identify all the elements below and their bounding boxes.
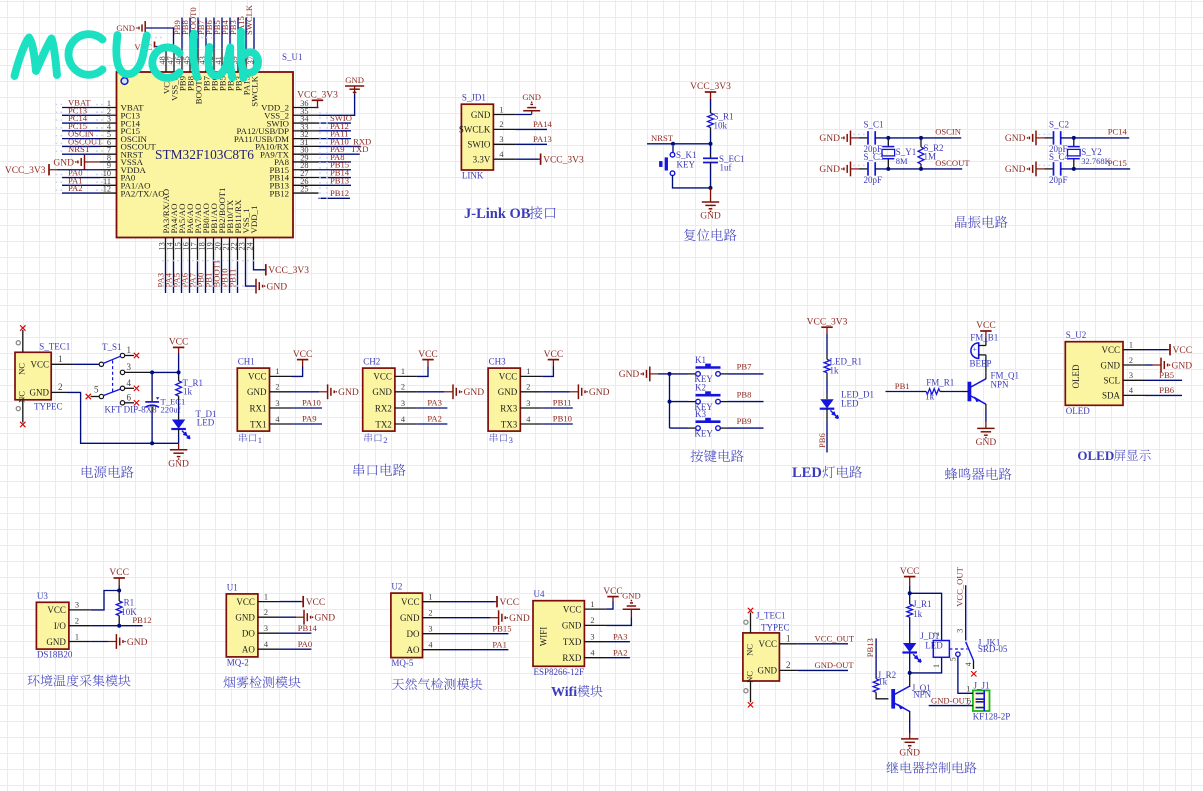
node GND-OUT relay: [929, 696, 973, 708]
svg-text:ESP8266-12F: ESP8266-12F: [534, 667, 585, 677]
chip top pin stubs and numbers: [158, 49, 255, 72]
title gas module: [392, 678, 482, 690]
svg-text:AO: AO: [242, 645, 255, 655]
svg-text:1: 1: [590, 600, 594, 609]
svg-text:VCC: VCC: [401, 597, 420, 607]
svg-text:GND: GND: [235, 613, 255, 623]
svg-text:220uf: 220uf: [161, 405, 181, 415]
svg-text:GND: GND: [471, 110, 491, 120]
svg-text:PA3: PA3: [427, 398, 442, 408]
no-connect bottom of S_TEC1: [16, 400, 25, 427]
svg-text:FM_R1: FM_R1: [926, 378, 954, 388]
svg-text:PA2: PA2: [613, 647, 628, 657]
svg-text:2: 2: [58, 382, 63, 392]
node PA10: [292, 398, 323, 408]
svg-text:TYPEC: TYPEC: [34, 401, 63, 411]
wire: [826, 373, 828, 379]
svg-text:S_C2: S_C2: [1049, 120, 1069, 130]
svg-text:KF128-2P: KF128-2P: [973, 712, 1011, 722]
ground relay: [899, 733, 920, 758]
node PB1: [886, 381, 921, 391]
svg-text:32.768K: 32.768K: [1081, 156, 1111, 166]
svg-text:S_K1: S_K1: [676, 150, 697, 160]
node VCC_OUT: [798, 633, 855, 643]
svg-text:3: 3: [590, 633, 594, 642]
sensor U2 MQ-5: [391, 582, 445, 669]
svg-text:LED: LED: [792, 465, 822, 481]
svg-text:+: +: [973, 345, 977, 354]
svg-text:PB12: PB12: [132, 615, 151, 625]
svg-text:VCC: VCC: [236, 597, 255, 607]
svg-text:PB14: PB14: [298, 623, 318, 633]
svg-text:2: 2: [428, 609, 432, 618]
svg-text:5: 5: [949, 657, 958, 661]
svg-text:PB8: PB8: [737, 389, 752, 399]
svg-text:VCC_3V3: VCC_3V3: [543, 156, 584, 166]
node PA2: [417, 414, 448, 424]
svg-text:PA9: PA9: [302, 414, 317, 424]
key K3: [670, 409, 721, 438]
ground at CH3: [542, 384, 609, 399]
ground at CH2: [417, 384, 484, 399]
svg-text:1M: 1M: [924, 152, 937, 162]
node PB5: [1145, 370, 1182, 380]
svg-text:GND: GND: [127, 638, 148, 648]
wire: [671, 142, 713, 146]
switch T_S1 KFT DIP-8X8: [73, 342, 157, 415]
label serial2: [364, 433, 387, 445]
power VCC_3V3 LED: [807, 317, 848, 334]
power VCC MQ-5: [445, 596, 520, 608]
ground key circuit: [619, 367, 670, 382]
svg-text:VCC_3V3: VCC_3V3: [268, 266, 309, 276]
svg-text:RXD: RXD: [562, 653, 582, 663]
power VCC_3V3 at VDDA pin 9: [5, 164, 100, 176]
ground at VSS_3 pin 47: [116, 21, 173, 49]
power VCC buzzer: [976, 321, 996, 345]
title relay control circuit: [886, 762, 976, 774]
svg-text:NC: NC: [744, 671, 754, 683]
wire switch to J_J1: [958, 656, 973, 693]
svg-text:I/O: I/O: [54, 621, 66, 631]
svg-text:PB1: PB1: [895, 381, 910, 391]
svg-text:MQ-5: MQ-5: [391, 658, 413, 668]
svg-text:GND: GND: [1101, 360, 1121, 370]
display S_U2 OLED: [1065, 330, 1145, 416]
svg-text:3: 3: [127, 362, 132, 372]
svg-text:TXD: TXD: [563, 637, 582, 647]
svg-text:PB10: PB10: [553, 414, 572, 424]
svg-text:GND: GND: [30, 388, 50, 398]
svg-text:VCC: VCC: [1173, 346, 1193, 356]
svg-text:PB15: PB15: [492, 624, 511, 634]
ground DS18B20: [91, 634, 148, 649]
svg-text:TX3: TX3: [501, 419, 518, 429]
svg-text:PB7: PB7: [737, 362, 753, 372]
svg-text:KEY: KEY: [677, 160, 696, 170]
svg-text:OLED: OLED: [1066, 406, 1090, 416]
svg-text:VCC_3V3: VCC_3V3: [807, 317, 848, 327]
power VCC_3V3 at VDD_1 pin 24: [254, 262, 310, 277]
title temperature module: [28, 674, 131, 686]
svg-text:10k: 10k: [714, 121, 728, 131]
node PB15: [445, 624, 512, 634]
svg-text:GND: GND: [1172, 361, 1193, 371]
node PB13: [319, 175, 352, 185]
svg-text:VCC: VCC: [976, 321, 996, 331]
resistor LED_R1 1k: [824, 356, 862, 375]
power VCC at CH1: [292, 350, 313, 377]
power VCC at CH2: [417, 350, 438, 377]
svg-text:GND: GND: [899, 748, 920, 758]
svg-text:VCC: VCC: [499, 372, 518, 382]
svg-text:1: 1: [499, 105, 503, 114]
node SWIO: [319, 113, 352, 123]
node NRST: [62, 144, 100, 154]
svg-text:PB5: PB5: [1159, 370, 1174, 380]
svg-text:2: 2: [1129, 356, 1133, 365]
wire: [673, 176, 713, 190]
connector CH2 serial: [363, 357, 417, 432]
node PB9: [720, 416, 763, 428]
node PC15: [62, 121, 100, 131]
ground at S_JD1 pin 1: [515, 92, 541, 115]
power VCC relay: [900, 567, 920, 594]
power VCC at OLED: [1145, 344, 1192, 356]
svg-text:GND: GND: [976, 438, 997, 448]
title LED circuit: [792, 465, 862, 481]
svg-text:PB13: PB13: [330, 175, 349, 185]
node NRST: [647, 133, 674, 144]
sensor U3 DS18B20: [36, 591, 91, 660]
svg-text:1: 1: [966, 684, 970, 693]
svg-text:GND: GND: [498, 387, 518, 397]
node PC13: [62, 105, 100, 115]
node SWCLK: [244, 4, 254, 49]
svg-text:GND: GND: [758, 666, 778, 676]
transistor J_Q1 NPN: [891, 683, 931, 712]
node PA7: [188, 262, 198, 294]
logo MCUclub: [15, 32, 259, 79]
label serial3: [490, 433, 513, 445]
svg-text:1: 1: [932, 664, 941, 668]
node PC14: [62, 113, 100, 123]
svg-text:LINK: LINK: [462, 171, 484, 181]
svg-text:PB13: PB13: [865, 638, 875, 657]
svg-text:KEY: KEY: [694, 428, 713, 438]
crystal circuit S_Y2 32.768K: [1005, 120, 1130, 185]
svg-text:NRST: NRST: [651, 133, 674, 143]
node PB9: [172, 18, 182, 49]
svg-text:NC: NC: [17, 391, 27, 403]
svg-text:20pF: 20pF: [1049, 175, 1068, 185]
node PA9 TXD: [319, 144, 369, 154]
svg-text:GND: GND: [372, 387, 392, 397]
svg-text:S_JD1: S_JD1: [462, 93, 486, 103]
wire: [985, 355, 987, 360]
node GND-OUT: [798, 660, 855, 670]
title reset circuit: [684, 229, 737, 241]
power VCC_3V3 at S_JD1 pin 4: [515, 154, 584, 166]
svg-text:S_C1: S_C1: [864, 120, 884, 130]
svg-text:OSCOUT: OSCOUT: [935, 158, 970, 168]
node OSCIN: [62, 129, 100, 139]
svg-text:GND: GND: [619, 370, 640, 380]
svg-text:S_U1: S_U1: [282, 52, 303, 62]
power VCC at pin 48: [134, 42, 166, 53]
svg-text:PA2: PA2: [68, 183, 83, 193]
svg-text:GND: GND: [522, 92, 541, 102]
transistor FM_Q1 NPN: [968, 371, 1020, 405]
svg-text:TYPEC: TYPEC: [761, 622, 790, 632]
power VCC DS18B20: [109, 568, 129, 601]
svg-text:20pF: 20pF: [864, 175, 883, 185]
node PB15: [319, 160, 352, 170]
svg-text:TX2: TX2: [375, 419, 392, 429]
svg-text:GND: GND: [509, 614, 530, 624]
power VCC at CH3: [542, 350, 563, 377]
ground reset: [700, 188, 721, 222]
wire power bus: [67, 370, 181, 445]
svg-text:K3: K3: [695, 409, 706, 419]
svg-text:RX1: RX1: [249, 403, 266, 413]
svg-text:GND: GND: [819, 134, 840, 144]
svg-text:GND: GND: [622, 591, 641, 601]
no-connect bottom of J_TEC1: [744, 681, 753, 708]
svg-text:K2: K2: [695, 383, 706, 393]
svg-text:1k: 1k: [830, 366, 840, 376]
marks: [150, 38, 327, 287]
svg-text:PB12: PB12: [330, 188, 349, 198]
resistor S_R1 10k: [708, 112, 734, 131]
svg-text:8M: 8M: [896, 156, 908, 166]
connector J_TEC1 TYPEC: [743, 611, 798, 683]
title power circuit: [82, 466, 134, 478]
chip S_U1 STM32F103C8T6 body: [117, 52, 303, 238]
node PB6: [1145, 385, 1182, 395]
svg-text:2: 2: [264, 608, 268, 617]
chip bottom pin stubs and numbers: [158, 238, 255, 262]
svg-text:3.3V: 3.3V: [473, 155, 491, 165]
svg-text:1: 1: [1129, 341, 1133, 350]
svg-text:GND: GND: [589, 388, 610, 398]
svg-text:RX3: RX3: [500, 403, 518, 413]
svg-text:4: 4: [127, 378, 132, 388]
svg-text:BEEP: BEEP: [970, 359, 992, 369]
svg-text:VDD_1: VDD_1: [249, 206, 259, 234]
module U4 ESP8266-12F: [533, 589, 606, 677]
node PA1 MQ-5: [445, 640, 509, 650]
svg-text:J_J1: J_J1: [974, 680, 990, 690]
svg-text:NC: NC: [744, 644, 754, 656]
connector J_J1 KF128-2P: [973, 680, 1011, 721]
svg-text:2: 2: [499, 120, 503, 129]
wire: [985, 373, 987, 379]
relay switch lever J_JK1 SRD-05: [949, 638, 1008, 677]
svg-text:OLED: OLED: [1077, 448, 1114, 463]
svg-text:6: 6: [127, 392, 132, 402]
key K1: [670, 355, 721, 384]
svg-text:OSCIN: OSCIN: [935, 127, 962, 137]
svg-text:25: 25: [300, 185, 308, 194]
svg-text:3: 3: [275, 399, 279, 408]
node PB14: [280, 623, 318, 633]
svg-text:VCC: VCC: [169, 338, 189, 348]
svg-text:PA3: PA3: [613, 631, 628, 641]
node PA3 wifi: [606, 631, 630, 641]
svg-text:SWIO: SWIO: [467, 140, 490, 150]
resistor J_R1 1k: [907, 593, 932, 643]
node PB4: [220, 18, 230, 49]
title wifi module: [551, 685, 603, 700]
ground buzzer: [976, 422, 997, 448]
node PB6 LED: [817, 409, 827, 453]
svg-text:VCC_OUT: VCC_OUT: [815, 633, 855, 643]
node PB10: [220, 262, 230, 294]
svg-text:VCC: VCC: [373, 372, 392, 382]
svg-text:LED: LED: [197, 418, 215, 428]
capacitor S_EC1 1uf: [703, 144, 745, 188]
svg-text:VCC: VCC: [1101, 345, 1120, 355]
ground wifi: [606, 591, 640, 626]
relay coil J_JK1: [908, 632, 950, 675]
title smoke module: [223, 676, 300, 688]
svg-text:PA2: PA2: [427, 414, 442, 424]
svg-text:1: 1: [127, 345, 132, 355]
connector S_JD1 J-Link: [459, 93, 516, 181]
ground at CH1: [292, 384, 359, 399]
node PA6: [180, 262, 190, 294]
svg-text:DO: DO: [242, 629, 255, 639]
svg-text:AO: AO: [407, 645, 420, 655]
key K2: [670, 383, 721, 412]
resistor FM_R1 1k: [921, 378, 969, 402]
node PB8: [720, 389, 763, 401]
svg-text:1: 1: [75, 632, 79, 641]
node PB1: [204, 262, 214, 294]
resistor R1 10K: [116, 598, 137, 628]
svg-text:1k: 1k: [925, 392, 935, 402]
wire: [826, 334, 828, 354]
svg-text:1: 1: [526, 367, 530, 376]
svg-text:K1: K1: [695, 355, 706, 365]
ground MQ-5: [445, 610, 530, 625]
svg-text:NC: NC: [17, 363, 27, 375]
ground at VSS_2 pin 35: [319, 75, 365, 115]
svg-text:VCC: VCC: [109, 568, 129, 578]
svg-text:PB12: PB12: [269, 188, 289, 198]
svg-text:DS18B20: DS18B20: [37, 650, 73, 660]
svg-text:1: 1: [58, 354, 63, 364]
node PA5: [172, 262, 182, 294]
svg-text:PA13: PA13: [533, 134, 552, 144]
svg-text:NPN: NPN: [913, 690, 932, 700]
svg-text:RX2: RX2: [375, 403, 392, 413]
svg-text:5: 5: [94, 384, 99, 394]
svg-text:GND: GND: [315, 614, 336, 624]
svg-text:2: 2: [275, 383, 279, 392]
wire relay coil branch: [908, 591, 942, 640]
node PB3: [228, 18, 238, 49]
led LED_D1: [820, 390, 874, 419]
ground MQ-2: [280, 610, 335, 625]
svg-text:TX1: TX1: [250, 419, 267, 429]
sensor U1 MQ-2: [226, 582, 280, 667]
svg-text:2: 2: [932, 632, 941, 636]
svg-text:PC14: PC14: [1108, 127, 1128, 137]
svg-text:PA10: PA10: [302, 398, 321, 408]
node PA14: [515, 119, 552, 129]
node PB7: [720, 362, 763, 374]
title J-Link OB interface: [464, 206, 556, 222]
svg-text:2: 2: [526, 383, 530, 392]
svg-text:PA14: PA14: [533, 119, 552, 129]
svg-text:2: 2: [383, 435, 387, 445]
svg-text:PA0: PA0: [298, 639, 313, 649]
svg-text:PB11: PB11: [228, 269, 238, 288]
wire: [91, 589, 121, 610]
node PA9: [292, 414, 323, 424]
resistor J_R2 1k: [873, 670, 896, 699]
no-connect top of S_TEC1: [16, 325, 25, 352]
power VCC T: [169, 338, 189, 373]
svg-text:1k: 1k: [878, 677, 888, 687]
svg-text:VCC: VCC: [248, 372, 267, 382]
node PB5: [212, 18, 222, 49]
svg-text:VCC_3V3: VCC_3V3: [297, 91, 338, 101]
svg-text:1: 1: [258, 435, 262, 445]
node PA2: [62, 183, 100, 193]
node PB13: [865, 638, 876, 679]
svg-text:Wifi: Wifi: [551, 685, 577, 700]
svg-text:VCC_3V3: VCC_3V3: [690, 82, 731, 92]
svg-text:DO: DO: [407, 629, 420, 639]
svg-text:WIFI: WIFI: [539, 627, 549, 647]
node BOOT1: [212, 260, 222, 293]
svg-text:NRST: NRST: [68, 144, 91, 154]
label serial1: [239, 433, 262, 445]
led J_D1: [902, 631, 943, 673]
svg-text:S_U2: S_U2: [1066, 330, 1087, 340]
node PA3: [417, 398, 448, 408]
svg-text:PB9: PB9: [737, 416, 752, 426]
svg-text:VCC: VCC: [418, 350, 438, 360]
resistor T_R1 1k: [176, 372, 203, 419]
svg-text:PB11: PB11: [553, 398, 572, 408]
svg-text:MQ-2: MQ-2: [227, 657, 249, 667]
svg-text:SWCLK: SWCLK: [244, 4, 254, 35]
node PA8: [319, 152, 352, 162]
svg-text:VCC: VCC: [500, 598, 520, 608]
node PB12: [319, 188, 351, 198]
node PA10 RXD: [319, 136, 372, 146]
svg-text:GND: GND: [400, 613, 420, 623]
node PA4: [164, 262, 174, 294]
ground at VSSA pin 8: [53, 155, 100, 170]
power VCC MQ-2: [280, 596, 325, 608]
node PB11: [228, 262, 238, 294]
svg-text:1: 1: [786, 633, 791, 643]
svg-text:PB6: PB6: [1159, 385, 1175, 395]
svg-text:3: 3: [428, 625, 432, 634]
svg-text:12: 12: [103, 185, 111, 194]
node PB14: [319, 168, 352, 178]
svg-text:2: 2: [75, 617, 79, 626]
svg-text:U3: U3: [37, 591, 48, 601]
wire: [909, 673, 911, 733]
node PA11: [319, 129, 352, 139]
svg-text:S_C3: S_C3: [864, 152, 885, 162]
